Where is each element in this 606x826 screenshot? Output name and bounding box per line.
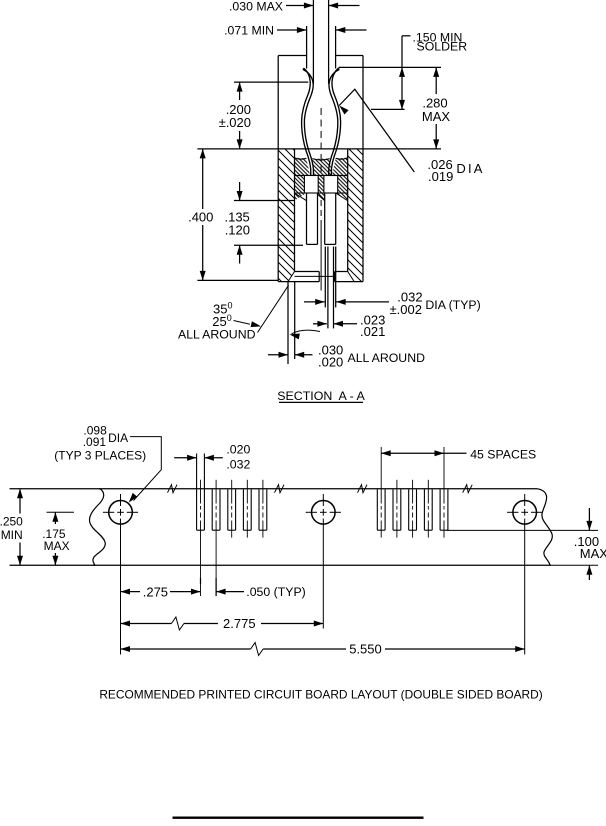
- svg-text:0: 0: [228, 301, 233, 311]
- housing hatched left wall: [278, 149, 294, 282]
- svg-text:.091: .091: [83, 435, 107, 449]
- dim .400: [188, 149, 278, 281]
- housing hatched right wall: [348, 149, 363, 282]
- svg-text:SECTION A - A: SECTION A - A: [277, 389, 365, 403]
- svg-text:MAX: MAX: [422, 109, 451, 124]
- mounting hole 1: [103, 494, 138, 655]
- dim .023/.021: [313, 313, 385, 340]
- svg-text:.120: .120: [225, 223, 250, 238]
- svg-text:±.020: ±.020: [219, 115, 251, 130]
- svg-text:DIA: DIA: [108, 431, 128, 445]
- solder level line: [339, 66, 442, 68]
- bottom rule: [173, 817, 424, 819]
- dim 5.550: [121, 641, 525, 656]
- contact legs: [307, 193, 336, 244]
- leader .026/.019 DIA: [339, 89, 484, 184]
- svg-text:ALL AROUND: ALL AROUND: [348, 351, 426, 365]
- mounting hole 2: [306, 494, 341, 629]
- svg-text:.275: .275: [143, 584, 168, 599]
- chamfer note 35/25 ALL AROUND: [178, 285, 289, 341]
- svg-text:.250: .250: [0, 515, 23, 529]
- svg-text:MAX: MAX: [44, 539, 70, 553]
- dim 2.775: [121, 616, 324, 631]
- dim .175 MAX: [42, 512, 74, 565]
- solder tails: [325, 247, 335, 329]
- contact heads: [304, 176, 337, 194]
- leader .098/.091 DIA (TYP 3 PLACES): [54, 423, 161, 502]
- svg-text:(TYP 3 PLACES): (TYP 3 PLACES): [54, 448, 146, 462]
- pin: [313, 0, 328, 84]
- pad group 2: [377, 447, 448, 538]
- spring contact right leaf: [329, 68, 341, 176]
- dim .050 (TYP): [216, 578, 306, 599]
- dim .030 MAX: [229, 0, 360, 14]
- svg-text:.071 MIN: .071 MIN: [224, 24, 274, 38]
- svg-text:±.002: ±.002: [390, 302, 422, 317]
- svg-text:DIA: DIA: [456, 161, 484, 176]
- svg-text:.020: .020: [226, 443, 250, 457]
- svg-text:.400: .400: [188, 210, 213, 225]
- dim 45 SPACES: [381, 447, 536, 461]
- dim .071 MIN: [224, 24, 366, 69]
- dim .200 +-.020: [219, 82, 309, 149]
- dim .135/.120: [224, 182, 303, 264]
- dim .030/.020 ALL AROUND: [268, 282, 425, 370]
- potting band dense hatch: [295, 158, 348, 176]
- svg-text:.050 (TYP): .050 (TYP): [246, 585, 305, 599]
- dim .020/.032 (pad width): [174, 443, 250, 472]
- mounting hole 3: [507, 494, 542, 655]
- pad group 1: [197, 454, 267, 597]
- dim .250 MIN: [0, 489, 100, 566]
- svg-text:0: 0: [227, 313, 232, 323]
- dim .100 MAX: [447, 508, 606, 580]
- svg-text:RECOMMENDED PRINTED CIRCUIT BO: RECOMMENDED PRINTED CIRCUIT BOARD LAYOUT…: [99, 688, 542, 702]
- svg-text:.021: .021: [360, 324, 385, 339]
- svg-text:SOLDER: SOLDER: [417, 40, 468, 54]
- contact collar hatch row: [295, 176, 348, 201]
- dim .275: [121, 578, 201, 599]
- housing top surface line: [197, 148, 441, 150]
- svg-text:.020: .020: [318, 355, 343, 370]
- SECTION A - A title: [277, 389, 365, 403]
- svg-text:MAX: MAX: [580, 546, 606, 561]
- svg-text:ALL AROUND: ALL AROUND: [178, 328, 256, 342]
- svg-text:.030 MAX: .030 MAX: [229, 0, 283, 14]
- svg-text:2.775: 2.775: [223, 616, 256, 631]
- svg-text:45 SPACES: 45 SPACES: [470, 447, 536, 461]
- svg-text:MIN: MIN: [1, 528, 23, 542]
- board outline: [89, 485, 552, 566]
- housing upper entry blocks: [278, 56, 363, 282]
- svg-text:DIA (TYP): DIA (TYP): [425, 298, 480, 312]
- svg-text:5.550: 5.550: [349, 641, 382, 656]
- svg-text:.032: .032: [226, 458, 250, 472]
- spring contact left leaf: [302, 68, 314, 176]
- dim .280 MAX: [422, 67, 451, 148]
- housing bottom face and chamfers: [278, 272, 363, 282]
- svg-text:.019: .019: [428, 169, 453, 184]
- dim .032 DIA (TYP): [304, 289, 481, 317]
- centerline (pin axis): [320, 108, 322, 291]
- dim .150 MIN SOLDER: [371, 31, 467, 110]
